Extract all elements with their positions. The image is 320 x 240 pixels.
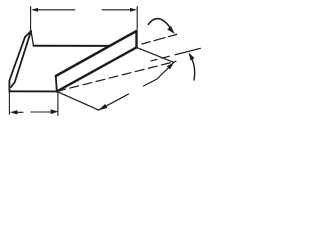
top dimension line left segment bbox=[38, 9, 75, 11]
left flange outer edge bbox=[9, 37, 25, 92]
top dimension right arrowhead bbox=[130, 8, 137, 12]
top dimension extension line right bbox=[136, 7, 138, 30]
wing right edge C-J bbox=[135, 31, 137, 48]
angle arrow shaft bbox=[190, 55, 195, 80]
wing top edge L1 bbox=[56, 31, 137, 76]
floor front edge bbox=[9, 90, 57, 92]
bent double arrow lower head bbox=[98, 104, 107, 110]
bent double arrow upper head bbox=[167, 62, 174, 69]
bottom dimension line left segment bbox=[17, 111, 23, 113]
angle arrow head bbox=[189, 52, 195, 60]
bend hinge vertical edge bbox=[56, 76, 57, 91]
leader line from bend corner bbox=[57, 91, 99, 110]
dashed flat line upper D1 bbox=[142, 34, 177, 44]
sheet-metal bend terminology diagram bbox=[0, 0, 206, 124]
dashed flat line lower D3 bbox=[57, 61, 176, 91]
curved bend-direction arrow shaft bbox=[148, 19, 171, 30]
bottom dimension left arrowhead bbox=[10, 110, 18, 114]
top dimension extension line left bbox=[30, 7, 32, 32]
floor back edge bbox=[34, 45, 110, 47]
bent double arrow shaft lower part bbox=[98, 94, 128, 110]
wing bottom front edge FR-J bbox=[57, 47, 137, 91]
bottom dimension right arrowhead bbox=[51, 109, 59, 114]
top dimension left arrowhead bbox=[31, 8, 38, 12]
bottom dimension extension line right bbox=[57, 91, 59, 115]
top dimension line right segment bbox=[102, 9, 130, 11]
curved bend-direction arrow head bbox=[167, 26, 175, 34]
left flange top edge bbox=[25, 31, 31, 37]
left flange inner edge bbox=[11, 31, 31, 87]
bottom dimension extension line left bbox=[8, 92, 10, 114]
left flange back edge bbox=[31, 31, 34, 46]
bent double arrow shaft upper part bbox=[144, 62, 175, 86]
bottom dimension line right segment bbox=[31, 111, 51, 113]
dashed flat line middle D2 bbox=[151, 48, 201, 61]
line P from J to dashed end bbox=[137, 47, 175, 62]
